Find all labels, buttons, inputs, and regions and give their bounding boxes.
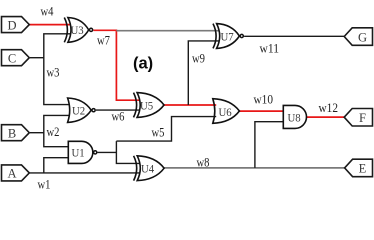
wire vertical w5/U4.in1 riser bbox=[116, 141, 139, 163]
gate U7 (XNOR) bbox=[213, 24, 243, 49]
wire w7 (red, U3 output to junction, down to U5 input 1) bbox=[93, 30, 139, 100]
svg-text:C: C bbox=[8, 51, 16, 65]
gate U3 (XNOR) bbox=[64, 18, 92, 43]
output flag E bbox=[345, 159, 373, 177]
wire U1 output to vertical junction bbox=[98, 151, 117, 153]
svg-text:U8: U8 bbox=[288, 111, 301, 125]
wire B net vertical U2.in2 to U1.in1 bbox=[44, 115, 69, 146]
wire w8 riser to U8 input 2 bbox=[255, 122, 283, 168]
svg-text:B: B bbox=[8, 126, 16, 140]
svg-text:U6: U6 bbox=[219, 105, 232, 119]
output flag F bbox=[344, 109, 372, 127]
wire w6 (U2 output to U5 input 2) bbox=[96, 109, 140, 111]
gate U8 (AND) bbox=[283, 105, 306, 128]
svg-text:F: F bbox=[359, 111, 366, 125]
wire w9 (vertical from U5 output net up to U7 input 2) bbox=[188, 41, 219, 105]
wire w12 (red, U8 output to F) bbox=[307, 116, 345, 118]
svg-text:U4: U4 bbox=[141, 162, 154, 176]
svg-text:w3: w3 bbox=[47, 66, 60, 80]
wire w8 (gray, U4 output to E) bbox=[164, 167, 345, 169]
svg-text:w12: w12 bbox=[319, 101, 339, 115]
svg-text:(a): (a) bbox=[133, 55, 153, 73]
svg-text:w5: w5 bbox=[152, 126, 165, 140]
gate U3 (XNOR) bbox=[64, 18, 67, 43]
svg-text:U2: U2 bbox=[72, 103, 85, 117]
wire w3 (C to vertical) bbox=[30, 57, 44, 59]
svg-text:A: A bbox=[7, 167, 16, 181]
svg-text:w7: w7 bbox=[97, 34, 110, 48]
svg-text:G: G bbox=[358, 30, 367, 44]
svg-text:w11: w11 bbox=[260, 42, 280, 56]
gate U4 (XOR) bbox=[134, 156, 165, 181]
svg-text:w8: w8 bbox=[197, 156, 210, 170]
svg-text:D: D bbox=[7, 18, 16, 32]
svg-text:w4: w4 bbox=[41, 5, 55, 19]
output flag G bbox=[344, 28, 372, 46]
wire w11 (U7 output to G) bbox=[244, 35, 344, 37]
gate U6 (OR) bbox=[213, 99, 240, 124]
svg-text:U5: U5 bbox=[140, 99, 153, 113]
svg-text:U1: U1 bbox=[72, 146, 85, 160]
gate U2 (NOR) bbox=[68, 98, 96, 122]
wire C net vertical to U3.in2 and U2.in1 bbox=[44, 34, 71, 105]
svg-text:U3: U3 bbox=[71, 23, 84, 37]
svg-text:w1: w1 bbox=[38, 178, 51, 192]
gate U1 (NAND) bbox=[68, 141, 96, 163]
svg-text:U7: U7 bbox=[221, 30, 234, 44]
wire w2 (B to vertical) bbox=[30, 132, 44, 134]
wire U5 output (red) to U6 input 1 bbox=[164, 104, 216, 106]
wire w1 (A to U4 input 2) bbox=[29, 172, 140, 174]
svg-text:w6: w6 bbox=[112, 110, 125, 124]
wire A riser to U1.in2 bbox=[44, 158, 69, 173]
svg-text:w9: w9 bbox=[192, 52, 205, 66]
svg-text:w10: w10 bbox=[254, 93, 274, 107]
gate U5 (XOR) bbox=[134, 93, 165, 118]
svg-text:E: E bbox=[359, 162, 367, 176]
input flag C bbox=[2, 50, 30, 66]
svg-text:w2: w2 bbox=[47, 125, 60, 139]
input flag B bbox=[2, 125, 30, 141]
input flag A bbox=[2, 165, 30, 181]
wire w10 (red, U6 output to U8 input 1) bbox=[239, 110, 283, 112]
wire w7 gray branch to U7 input 1 bbox=[116, 30, 219, 32]
wire w4 (red, D to U3 input 1) bbox=[29, 24, 70, 26]
wire w5 (over to U6 input 2) bbox=[116, 117, 216, 142]
input flag D bbox=[2, 17, 30, 33]
